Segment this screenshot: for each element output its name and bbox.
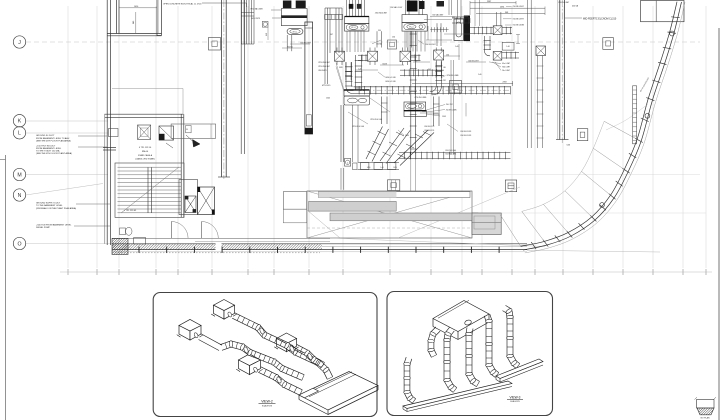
svg-text:#56 IN 0.3H7: #56 IN 0.3H7 — [468, 60, 479, 62]
svg-text:C30: C30 — [392, 37, 395, 39]
dark vent top C — [407, 1, 418, 12]
svg-text:45a 0.3H7: 45a 0.3H7 — [502, 63, 510, 65]
note electrical closet — [163, 3, 247, 7]
svg-text:4 TPL 112.50: 4 TPL 112.50 — [139, 147, 152, 149]
svg-text:90b 0.3H7: 90b 0.3H7 — [502, 67, 510, 69]
svg-text:RM-06: RM-06 — [142, 151, 149, 153]
svg-text:2394: 2394 — [500, 7, 504, 9]
duct to damper right — [470, 27, 519, 59]
grid bubble K — [13, 115, 25, 127]
top right tiny labels — [558, 2, 579, 7]
svg-text:(SEE THE 4TH FLOOR PLANT AREA): (SEE THE 4TH FLOOR PLANT AREA) — [36, 152, 72, 155]
diagonal duct 2 — [380, 128, 410, 164]
svg-text:NO PLAN: NO PLAN — [701, 417, 710, 420]
svg-text:2392: 2392 — [503, 81, 507, 83]
damper stubs — [337, 48, 441, 66]
svg-text:#450 0-1.240: #450 0-1.240 — [385, 81, 396, 83]
tall AHU unit — [454, 0, 464, 40]
wall x242 — [241, 0, 244, 154]
svg-text:1-40: 1-40 — [478, 74, 481, 76]
svg-text:#P50 IN 0.3H7: #P50 IN 0.3H7 — [318, 66, 330, 68]
svg-text:#50 IN 0.1074: #50 IN 0.1074 — [460, 135, 471, 137]
labels right cluster — [489, 62, 510, 72]
wall end block — [112, 239, 128, 255]
damper row — [335, 50, 444, 62]
view3 far-left column — [404, 357, 406, 363]
riser bank left — [242, 0, 255, 44]
view3 plenum slab — [433, 300, 489, 339]
detail box VIEW-3 — [387, 292, 553, 416]
stair enclosure wall — [181, 114, 184, 217]
curtain wall columns — [670, 31, 675, 36]
svg-text:1-40: 1-40 — [506, 46, 510, 48]
note ground supply duct — [36, 203, 110, 210]
svg-text:#50 IN 0.173: #50 IN 0.173 — [424, 126, 434, 128]
svg-text:STAIR CASE A: STAIR CASE A — [138, 154, 153, 157]
ladder rail detail — [633, 76, 651, 144]
view2 duct run C — [258, 372, 275, 380]
svg-text:DIESEL PUMP: DIESEL PUMP — [36, 227, 51, 229]
dim tick row — [430, 27, 448, 32]
wc fixture — [120, 227, 133, 235]
door arrow wedge — [186, 135, 200, 147]
svg-text:950: 950 — [452, 17, 455, 19]
svg-text:90c 0.3H7: 90c 0.3H7 — [502, 70, 510, 72]
svg-text:#50 IN 0.63M: #50 IN 0.63M — [513, 25, 525, 27]
riser pair below EF-1-3 — [341, 105, 358, 190]
dim line 2392 — [412, 81, 513, 86]
wall tick marks — [139, 247, 499, 253]
svg-text:#56 IN 0.3H7: #56 IN 0.3H7 — [513, 18, 524, 20]
wall left perimeter — [107, 0, 110, 245]
grid bubble O — [13, 237, 25, 249]
svg-text:#450 SA 0.3M7: #450 SA 0.3M7 — [375, 11, 387, 14]
svg-text:#50 SA 0.3M7: #50 SA 0.3M7 — [432, 14, 443, 17]
svg-text:#450 0-1.240: #450 0-1.240 — [385, 77, 396, 79]
svg-text:L: L — [18, 131, 21, 137]
riser bank mid — [325, 8, 343, 84]
dark unit box — [159, 126, 174, 148]
svg-text:1450: 1450 — [367, 167, 371, 169]
labels right stack — [503, 6, 524, 26]
svg-text:1545: 1545 — [326, 98, 330, 100]
duct elbow EF row to damper4 — [345, 61, 510, 95]
column — [577, 129, 588, 141]
svg-text:#RH 3HTV: #RH 3HTV — [318, 70, 327, 72]
curved curtain wall band — [521, 2, 682, 250]
svg-text:948: 948 — [266, 33, 268, 36]
fan unit EF-1-3 — [344, 90, 369, 105]
note ground fl duct — [36, 135, 107, 142]
grid bubble J — [13, 36, 25, 48]
risers above EF-2-1 — [406, 0, 423, 15]
svg-text:J: J — [18, 40, 21, 46]
svg-text:1-40: 1-40 — [380, 167, 383, 169]
column — [209, 38, 221, 51]
svg-text:#P50 IN 0.3.06: #P50 IN 0.3.06 — [370, 119, 382, 121]
fan unit EF-2-2 — [404, 102, 426, 116]
white rect left of plenum — [283, 192, 306, 223]
view3 column 4 — [503, 311, 508, 314]
svg-text:#50 IN 0.3H7: #50 IN 0.3H7 — [425, 44, 436, 46]
damper room box — [138, 125, 151, 139]
svg-text:VIEW-2: VIEW-2 — [261, 399, 273, 403]
svg-text:907: 907 — [415, 60, 418, 62]
tag box — [262, 21, 268, 40]
right long wall with centerline — [556, 0, 571, 147]
svg-text:#50 IN 0.3M7: #50 IN 0.3M7 — [300, 43, 311, 45]
fan unit EF-1-2 — [345, 17, 369, 32]
door swing A — [171, 222, 188, 239]
view2 fan cube B — [179, 319, 201, 331]
detail box VIEW-2 — [153, 293, 377, 417]
wall horizontal row-K — [105, 114, 184, 244]
svg-text:1450: 1450 — [393, 167, 397, 169]
view2 fan cube D — [277, 333, 297, 344]
svg-text:#50 IN: #50 IN — [382, 63, 388, 65]
scatter labels dense area — [330, 6, 481, 137]
risers above EF-1-2 — [347, 0, 365, 17]
long risers right — [528, 0, 544, 148]
view3 base plank right — [496, 359, 543, 382]
view3 label — [507, 395, 523, 403]
svg-text:MID FEERTC ELCNOM CL310: MID FEERTC ELCNOM CL310 — [583, 17, 617, 20]
svg-text:SCALE NTS: SCALE NTS — [510, 400, 520, 403]
svg-text:TO THE BASEMENT LEVEL: TO THE BASEMENT LEVEL — [36, 204, 63, 207]
svg-text:OPEN CONCRETE ELECTRICAL CL 27: OPEN CONCRETE ELECTRICAL CL 2700 — [163, 3, 202, 6]
junction box small — [353, 163, 358, 170]
view3 column 2 — [466, 328, 467, 334]
duct right of collector — [399, 150, 511, 159]
radial stair treads — [500, 104, 660, 252]
legend cup symbol — [695, 397, 717, 419]
column — [450, 81, 462, 94]
square box below EF-2-1 — [388, 40, 397, 49]
column — [388, 180, 400, 191]
svg-text:#50 IN 0.3H7: #50 IN 0.3H7 — [513, 6, 524, 8]
svg-text:#P50 IN 0.3M6: #P50 IN 0.3M6 — [446, 75, 458, 77]
view2 plenum slab — [299, 372, 378, 415]
column grid lines — [68, 6, 706, 275]
svg-text:O: O — [17, 241, 21, 247]
svg-text:MTV 3070: MTV 3070 — [322, 85, 330, 87]
view2 duct run B — [199, 334, 305, 381]
grid bubble N — [13, 189, 25, 201]
fan unit EF-1-1 — [271, 1, 307, 35]
sheet edge right — [718, 28, 720, 420]
svg-text:(LANDLORD STAIR): (LANDLORD STAIR) — [135, 158, 155, 161]
view3 column 1 — [446, 327, 450, 332]
column H-box — [505, 180, 516, 192]
label mid feertc elbow — [565, 17, 617, 20]
svg-text:VIEW-3: VIEW-3 — [510, 395, 521, 399]
wall shaft U top-left — [157, 0, 162, 36]
curved curtain wall outer faint — [525, 2, 685, 253]
svg-text:#P50 IN 0.3M6: #P50 IN 0.3M6 — [414, 97, 426, 99]
view2 label — [259, 399, 276, 407]
junction box 1-40 — [502, 34, 520, 50]
svg-text:+ TPL 113.65: + TPL 113.65 — [124, 210, 137, 212]
wall horizontal top-left — [107, 34, 161, 36]
svg-text:950 SA: 950 SA — [287, 46, 293, 49]
leader lines dense area — [372, 40, 458, 135]
svg-text:#P50 IN 0.3.06: #P50 IN 0.3.06 — [352, 126, 364, 128]
svg-text:907: 907 — [330, 34, 333, 36]
svg-text:#50 IN 0.3H7: #50 IN 0.3H7 — [558, 2, 569, 4]
riser pair x451 — [451, 60, 454, 155]
diagonal duct 3 — [394, 130, 434, 166]
svg-text:#50 SA 0.1.007: #50 SA 0.1.007 — [390, 6, 402, 9]
svg-text:HOU 2073: HOU 2073 — [251, 18, 260, 20]
svg-text:940: 940 — [133, 21, 135, 24]
wall-mounted box — [109, 129, 119, 137]
labels riser bank — [250, 8, 263, 21]
vertical duct from EF-1-2 — [355, 55, 357, 90]
svg-text:#50 IN 0.3H4: #50 IN 0.3H4 — [445, 150, 456, 152]
labels EF-1-3 — [318, 62, 344, 99]
view3 column 3 — [484, 316, 486, 322]
view3 left S-duct — [431, 327, 436, 332]
grid bubble L — [13, 127, 25, 139]
corridor wall with centerline — [218, 0, 230, 179]
view2 duct run A — [232, 318, 257, 330]
tag circle 2 — [345, 159, 351, 167]
svg-text:#50 IN 0.174: #50 IN 0.174 — [424, 130, 434, 132]
duct shaft column — [305, 22, 313, 134]
svg-text:#P50 IN 0.3H7: #P50 IN 0.3H7 — [318, 62, 330, 64]
extra tiny labels web — [287, 14, 479, 114]
corridor wall line — [112, 237, 330, 239]
wall top-left vertical — [117, 0, 120, 34]
top-right roof rectangle — [641, 1, 685, 22]
svg-text:1450: 1450 — [134, 6, 138, 8]
svg-text:#50 IN 0.3H4: #50 IN 0.3H4 — [445, 153, 456, 155]
svg-text:(SEE THE 4TH FLOOR PLAN AREA): (SEE THE 4TH FLOOR PLAN AREA) — [36, 139, 71, 142]
svg-text:+500 TILE FROM BASEMENT LEVEL: +500 TILE FROM BASEMENT LEVEL — [36, 224, 72, 227]
dimension row top — [470, 1, 545, 15]
wall stub row-M — [103, 148, 116, 151]
note toilet duct — [36, 145, 107, 155]
duct web segments — [282, 0, 486, 124]
svg-text:2387: 2387 — [487, 1, 491, 3]
note diesel pump duct — [36, 224, 110, 230]
svg-text:(FROM AHU ON THE PLANT PLAN AR: (FROM AHU ON THE PLANT PLAN AREA) — [36, 207, 76, 210]
grid bubble M — [13, 168, 25, 180]
vertical duct pair x413 — [392, 31, 417, 191]
diagonal duct 1 — [366, 127, 389, 162]
svg-text:EF-1-2: EF-1-2 — [351, 27, 355, 29]
south wall hatched — [112, 242, 527, 253]
vertical connectors to diagonals — [381, 97, 440, 127]
svg-text:EF-1-1: EF-1-1 — [293, 31, 298, 33]
svg-text:FROM BASEMENT LEVEL: FROM BASEMENT LEVEL — [36, 147, 62, 150]
svg-text:50: 50 — [186, 129, 188, 131]
svg-text:292: 292 — [443, 80, 446, 82]
svg-text:K: K — [18, 119, 22, 125]
view2 fan cube A — [214, 300, 235, 311]
curtain wall mullion ticks — [531, 17, 680, 249]
svg-text:450 SA: 450 SA — [572, 4, 579, 7]
svg-text:SCALE NTS: SCALE NTS — [262, 404, 273, 407]
row grid lines — [26, 42, 712, 272]
stub lines below units — [347, 31, 425, 52]
svg-text:1300: 1300 — [422, 111, 426, 113]
svg-text:EF-2-1: EF-2-1 — [409, 27, 413, 29]
view3 base plank main — [403, 381, 512, 412]
svg-text:M: M — [17, 172, 21, 178]
svg-text:908: 908 — [505, 12, 508, 14]
small box on wall — [134, 238, 146, 244]
svg-text:1-40: 1-40 — [455, 46, 458, 48]
svg-text:1-40: 1-40 — [358, 68, 361, 70]
stair RM-06 — [115, 163, 184, 217]
dark riser bar — [464, 16, 470, 42]
view2 duct run D — [294, 350, 306, 356]
svg-text:1300: 1300 — [405, 135, 409, 137]
svg-text:#50. 292: #50. 292 — [446, 104, 453, 106]
column — [603, 38, 614, 50]
svg-text:#50 IN 0.1074: #50 IN 0.1074 — [460, 131, 471, 133]
svg-text:FROM BASEMENT LEVEL TO AHU: FROM BASEMENT LEVEL TO AHU — [36, 137, 70, 140]
view2 stray couplings — [243, 327, 313, 384]
labels EF-2-2 dims — [414, 97, 466, 116]
damper x536 — [536, 46, 546, 56]
door swing B — [202, 222, 219, 239]
room outline upper-left — [112, 89, 183, 115]
wide room rect — [171, 124, 216, 138]
elbow stubs at dampers — [345, 54, 442, 80]
svg-text:C30: C30 — [446, 54, 449, 56]
damper pair right — [493, 26, 502, 60]
collector row boxes — [358, 163, 399, 170]
sheet edge left — [5, 155, 7, 420]
svg-text:1545: 1545 — [442, 116, 446, 118]
dark vent top D — [437, 1, 445, 7]
svg-text:TO THE TOILET 150 DIA: TO THE TOILET 150 DIA — [36, 150, 60, 153]
svg-text:#50: #50 — [443, 67, 446, 69]
stair room label — [124, 147, 155, 212]
view2 fan cube C — [239, 354, 261, 366]
riser to upper duct — [496, 12, 501, 26]
svg-text:#P50 SA 0.3M3: #P50 SA 0.3M3 — [250, 8, 263, 11]
shaft A — [179, 180, 198, 215]
svg-text:950: 950 — [378, 30, 381, 32]
fan unit EF-2-1 — [402, 15, 427, 32]
shaft B elevator — [198, 187, 215, 215]
top dim left — [119, 6, 157, 33]
duct boxes right of plenum — [472, 213, 501, 235]
plenum duct bank — [307, 187, 545, 247]
svg-text:N: N — [18, 193, 22, 199]
